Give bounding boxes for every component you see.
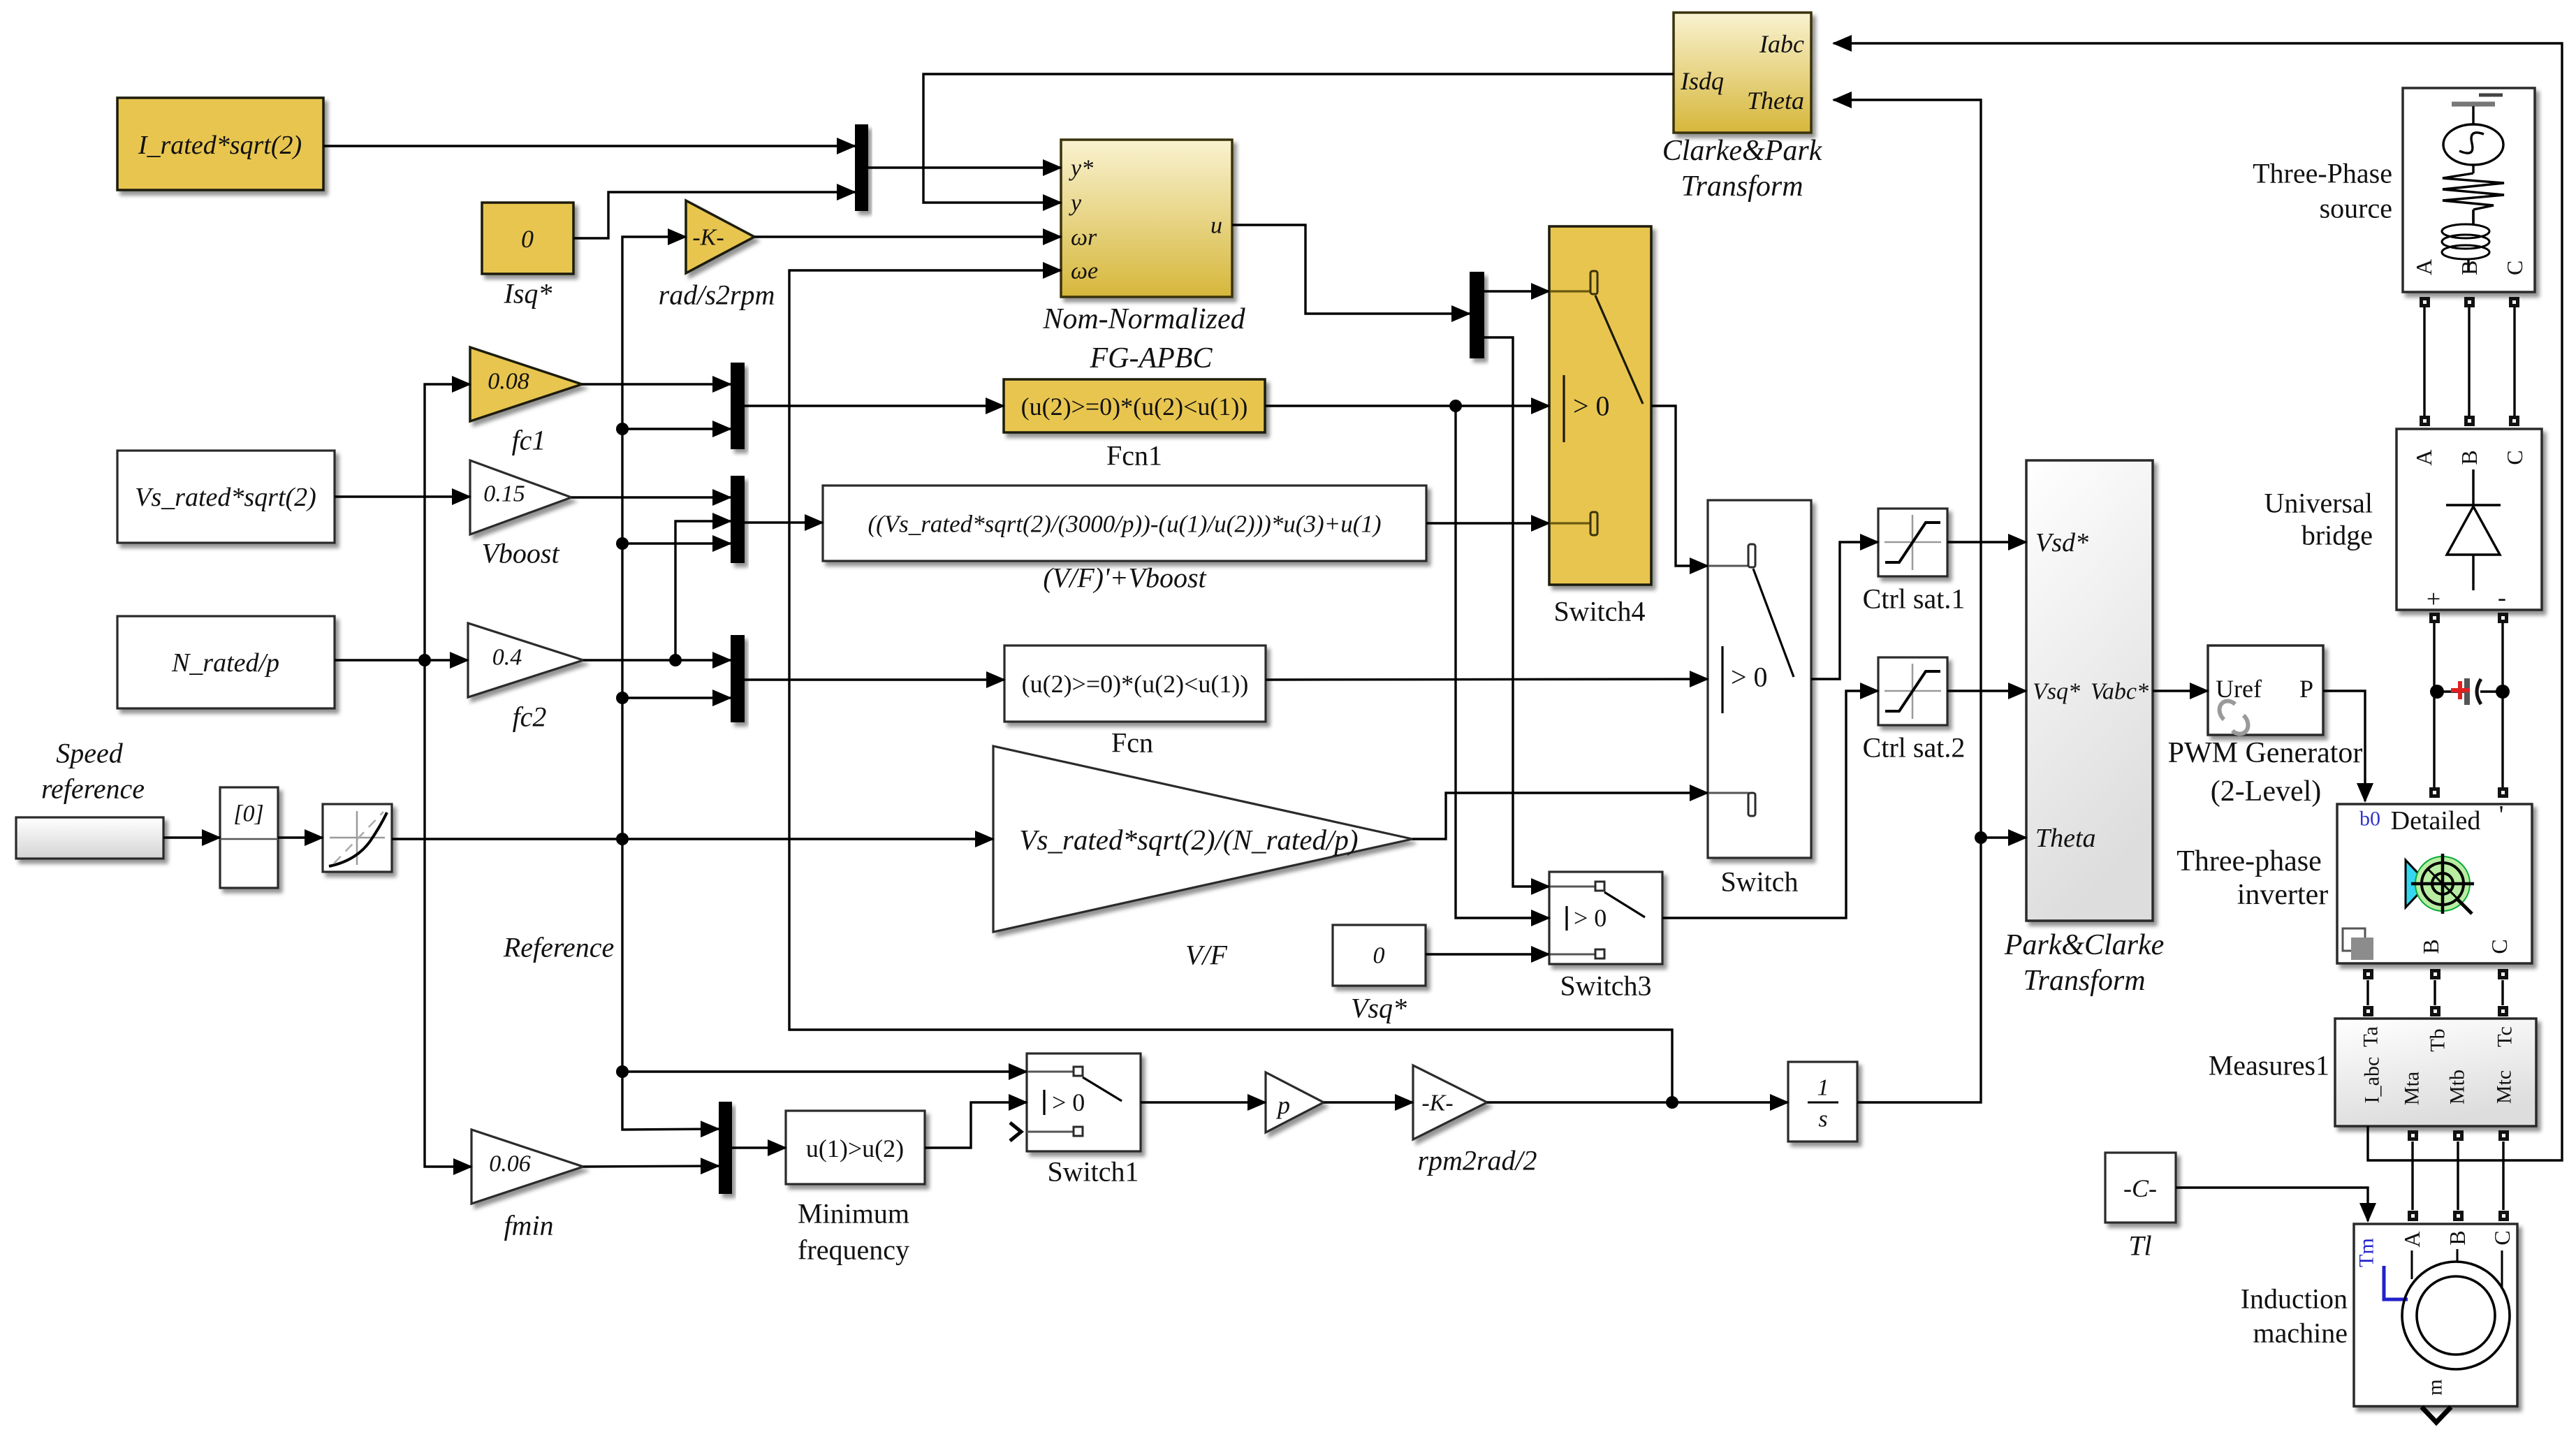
wire source B to bridge B [2468, 307, 2470, 416]
wire fc1 to MuxB in1 [582, 383, 731, 385]
svg-text:Ta: Ta [2359, 1026, 2383, 1047]
wire Reference branch to MuxB in2 [622, 428, 731, 430]
svg-text:-: - [2498, 583, 2506, 611]
saturation Ctrl sat.1 [1878, 509, 1947, 576]
gain rpm2rad/2 -K- [1413, 1065, 1487, 1139]
machine stator/rotor circles [2402, 1262, 2510, 1369]
svg-text:ωe: ωe [1071, 258, 1098, 284]
constant block Vs_rated*sqrt(2) [117, 451, 335, 543]
svg-text:Tl: Tl [2128, 1230, 2151, 1262]
wire MuxE to Minimum frequency [732, 1146, 786, 1148]
svg-text:Switch3: Switch3 [1560, 970, 1651, 1002]
wire Switch to Ctrl sat.1 [1811, 542, 1878, 679]
block Three-Phase source [2403, 88, 2535, 292]
svg-text:Ctrl sat.2: Ctrl sat.2 [1863, 732, 1966, 764]
wire Fcn to Switch in2 [1266, 679, 1708, 680]
block Reference saturation/rate limiter [323, 804, 392, 872]
svg-text:B: B [2445, 1230, 2470, 1245]
svg-text:B: B [2457, 261, 2482, 275]
svg-text:V/F: V/F [1185, 940, 1228, 971]
wire we feedback (from rpm2rad/2 line) [789, 270, 1672, 1102]
svg-text:Tc: Tc [2494, 1026, 2517, 1047]
svg-text:Fcn: Fcn [1111, 727, 1153, 759]
mux MuxB (Fcn1 inputs) [731, 363, 745, 449]
svg-text:Ctrl sat.1: Ctrl sat.1 [1863, 583, 1966, 615]
svg-text:Vsd*: Vsd* [2035, 528, 2088, 557]
wire PWM P down to inverter [2323, 691, 2365, 801]
svg-text:-C-: -C- [2123, 1174, 2157, 1202]
block PWM Generator (2-Level) [2208, 646, 2323, 735]
Switch3 block [1549, 872, 1662, 964]
junction node Reference/Switch1 [616, 1065, 629, 1078]
inductor coils inside source [2442, 224, 2489, 238]
gain fmin 0.06 [471, 1130, 583, 1204]
port pads machine inputs [2408, 1211, 2509, 1221]
svg-text:Universal: Universal [2264, 488, 2373, 519]
Fcn block [1004, 646, 1266, 722]
gain fc1 0.08 [470, 347, 582, 421]
wire Vsq* 0 to Switch3 in3 [1426, 953, 1549, 955]
svg-text:(2-Level): (2-Level) [2211, 775, 2322, 808]
svg-text:0.06: 0.06 [489, 1151, 531, 1177]
junction node DC bus - [2496, 685, 2510, 699]
svg-text:-K-: -K- [692, 225, 724, 251]
svg-text:P: P [2299, 675, 2313, 703]
svg-text:A: A [2399, 1231, 2424, 1247]
blue Tm arrow polyline [2384, 1266, 2408, 1299]
svg-text:inverter: inverter [2237, 879, 2329, 911]
svg-text:[0]: [0] [233, 801, 263, 827]
svg-text:Vboost: Vboost [481, 538, 559, 569]
m output chevron [2422, 1407, 2451, 1422]
wire Reference to rad/s2rpm [622, 237, 686, 839]
resistor zigzag inside source [2443, 173, 2504, 210]
svg-text:ωr: ωr [1071, 225, 1097, 251]
svg-text:((Vs_rated*sqrt(2)/(3000/p))-(: ((Vs_rated*sqrt(2)/(3000/p))-(u(1)/u(2))… [868, 511, 1381, 538]
Fcn block u(1)>u(2) Minimum frequency [786, 1111, 925, 1184]
svg-text:Isdq: Isdq [1680, 67, 1724, 95]
svg-text:Three-Phase: Three-Phase [2253, 158, 2392, 189]
junction node DC bus + [2430, 685, 2444, 699]
svg-text:': ' [2499, 801, 2504, 830]
wire fmin to MuxE in2 [583, 1166, 719, 1167]
Switch block [1708, 500, 1811, 858]
wire Theta branch to Park&Clarke Theta [1981, 836, 2026, 838]
gain V/F big triangle [993, 746, 1412, 932]
svg-text:Induction: Induction [2241, 1283, 2348, 1315]
svg-text:Mtb: Mtb [2446, 1070, 2469, 1104]
wire bridge - to inverter [2501, 622, 2503, 787]
block Induction machine [2354, 1224, 2517, 1406]
subsystem Measures1 [2335, 1019, 2536, 1126]
junction node rpm2rad output [1666, 1096, 1678, 1109]
wire I_abc measurement loop to Clarke&Park Iabc [1834, 43, 2562, 1160]
wire demux out1 to Switch4 in1 [1484, 290, 1549, 292]
Switch4 block [1549, 226, 1651, 585]
svg-text:Transform: Transform [1681, 170, 1803, 203]
wire Measures Mtc to machine C [2502, 1142, 2504, 1210]
mux MuxE (Minimum frequency inputs) [719, 1102, 732, 1194]
wire Vabc* to PWM Uref [2153, 690, 2208, 692]
gain fc2 0.4 [468, 623, 583, 697]
port pads Measures inputs [2363, 1006, 2508, 1016]
svg-text:Isq*: Isq* [504, 278, 552, 309]
gain p [1266, 1072, 1324, 1132]
svg-text:Nom-Normalized: Nom-Normalized [1042, 303, 1245, 335]
source block Speed reference ramp [16, 817, 163, 859]
integrator block 1/s [1788, 1062, 1857, 1142]
svg-text:frequency: frequency [798, 1234, 909, 1266]
svg-text:reference: reference [41, 773, 145, 805]
constant block N_rated/p [117, 616, 335, 708]
wire inverter B to Measures Tb [2434, 980, 2436, 1005]
block Three-phase inverter Detailed [2337, 804, 2532, 963]
port pads inverter outputs [2363, 969, 2508, 979]
diode symbol inside bridge [2472, 469, 2474, 505]
svg-text:C: C [2489, 1230, 2515, 1245]
wire Speed reference to [0] [163, 836, 220, 838]
svg-text:y: y [1069, 191, 1082, 217]
demux before Switch4 [1470, 272, 1484, 358]
svg-text:0: 0 [1373, 943, 1385, 969]
gray squares icon inside inverter [2343, 928, 2365, 951]
wire MuxD to Fcn [745, 678, 1004, 680]
svg-text:s: s [1818, 1107, 1827, 1132]
port pads Measures outputs [2408, 1130, 2509, 1141]
svg-text:Vsq*: Vsq* [1351, 993, 1407, 1024]
svg-text:Three-phase: Three-phase [2176, 845, 2322, 877]
svg-text:Mta: Mta [2401, 1072, 2424, 1105]
wire Ctrl sat.1 to Vsd* [1947, 541, 2026, 543]
wire Reference down branch to MuxE in1 [622, 839, 719, 1130]
svg-text:(u(2)>=0)*(u(2)<u(1)): (u(2)>=0)*(u(2)<u(1)) [1021, 393, 1248, 421]
svg-text:bridge: bridge [2301, 520, 2373, 551]
svg-text:Fcn1: Fcn1 [1106, 440, 1162, 472]
constant block Tl -C- [2105, 1153, 2176, 1223]
svg-text:Tb: Tb [2427, 1028, 2450, 1051]
wire Fcn1 branch to Switch3 in2 [1456, 406, 1549, 918]
junction node Theta/ParkClarke [1975, 831, 1987, 844]
svg-text:p: p [1275, 1091, 1290, 1119]
wire inverter C to Measures Tc [2501, 980, 2503, 1005]
wire fc2 branch to MuxC in2 [675, 521, 731, 660]
wire rpm2rad/2 to integrator [1487, 1101, 1788, 1103]
svg-text:Switch: Switch [1720, 866, 1798, 898]
svg-text:B: B [2418, 939, 2443, 954]
svg-text:Theta: Theta [1747, 87, 1804, 115]
svg-text:+: + [2427, 585, 2440, 613]
svg-text:> 0: > 0 [1731, 662, 1768, 693]
Switch1 block [1027, 1053, 1141, 1151]
svg-text:machine: machine [2253, 1318, 2348, 1349]
block Universal bridge [2396, 429, 2542, 610]
svg-text:Iabc: Iabc [1759, 30, 1804, 58]
junction node Reference/MuxB [616, 423, 629, 435]
svg-text:0.08: 0.08 [488, 369, 529, 395]
wire Switch1 to gain p [1141, 1101, 1266, 1103]
svg-text:u: u [1210, 213, 1222, 239]
svg-text:rad/s2rpm: rad/s2rpm [659, 279, 775, 311]
block [0] index vector [220, 787, 278, 888]
port pads source outputs [2420, 297, 2519, 307]
wire Switch3 to Ctrl sat.2 [1662, 691, 1878, 918]
wire Measures Mta to machine A [2411, 1142, 2413, 1210]
motor icon inside inverter [2406, 860, 2428, 907]
svg-text:Park&Clarke: Park&Clarke [2004, 929, 2165, 961]
wire fc2 to MuxD in1 [583, 659, 731, 661]
junction node Reference/MuxD [616, 692, 629, 704]
port pads inverter DC inputs [2429, 787, 2508, 798]
svg-text:I_abc: I_abc [2361, 1057, 2384, 1104]
Fcn block (V/F)'+Vboost [823, 486, 1426, 561]
gain Vboost 0.15 [470, 460, 571, 534]
wire MuxB to Fcn1 [745, 404, 1004, 407]
gain rad/s2rpm -K- [686, 200, 754, 273]
AC source circle inside source [2443, 124, 2503, 165]
svg-text:Switch1: Switch1 [1047, 1156, 1139, 1188]
svg-text:N_rated/p: N_rated/p [171, 648, 279, 678]
junction node Fcn1/Switch3 [1449, 400, 1462, 412]
svg-text:A: A [2411, 449, 2436, 465]
Fcn1 block [1004, 379, 1265, 432]
wire Reference main to V/F [392, 838, 993, 840]
svg-text:Vs_rated*sqrt(2)/(N_rated/p): Vs_rated*sqrt(2)/(N_rated/p) [1019, 824, 1358, 856]
svg-text:I_rated*sqrt(2): I_rated*sqrt(2) [138, 131, 302, 160]
junction node Reference/MuxC [616, 537, 629, 550]
wire Measures Mtb to machine B [2457, 1142, 2459, 1210]
wire V/F to Switch in3 [1412, 793, 1708, 839]
junction node Reference main [616, 833, 629, 845]
junction node fc2 branch [669, 654, 682, 666]
svg-text:y*: y* [1069, 156, 1093, 182]
wire [0] to rate limiter [278, 836, 323, 838]
wire inverter A to Measures Ta [2366, 980, 2369, 1005]
DC bus capacitor branch [2437, 690, 2466, 692]
svg-text:fmin: fmin [504, 1210, 553, 1241]
svg-text:fc2: fc2 [513, 701, 547, 733]
svg-text:Theta: Theta [2035, 824, 2096, 853]
subsystem Clarke&Park Transform [1674, 13, 1811, 133]
wire Reference branch to MuxD in2 [622, 697, 731, 699]
wire MuxC to (V/F)'+Vboost [745, 521, 823, 523]
svg-text:FG-APBC: FG-APBC [1090, 342, 1213, 374]
wire Ctrl sat.2 to Vsq* [1947, 690, 2026, 692]
constant block Isq* value 0 [482, 203, 573, 274]
wire N_rated to fc2 [335, 659, 468, 661]
wire Vs_rated to Vboost [335, 495, 470, 497]
port pads bridge inputs [2420, 416, 2519, 426]
svg-text:Switch4: Switch4 [1553, 596, 1645, 627]
svg-text:1: 1 [1817, 1075, 1829, 1101]
wire Fcn1 to Switch4 in2 [1265, 404, 1549, 407]
wire source C to bridge C [2513, 307, 2515, 416]
wire p to rpm2rad/2 [1324, 1101, 1413, 1103]
svg-text:Measures1: Measures1 [2209, 1050, 2329, 1081]
svg-text:C: C [2487, 939, 2512, 954]
junction node N_rated branch [418, 654, 431, 666]
wire N_rated branch vertical to fc1 and fmin [425, 384, 470, 660]
svg-text:Tm: Tm [2355, 1238, 2378, 1267]
mux MuxA (y* inputs) [855, 124, 868, 211]
svg-text:(u(2)>=0)*(u(2)<u(1)): (u(2)>=0)*(u(2)<u(1)) [1022, 670, 1249, 698]
svg-text:Clarke&Park: Clarke&Park [1662, 135, 1823, 167]
svg-text:Vs_rated*sqrt(2): Vs_rated*sqrt(2) [135, 483, 316, 512]
ground symbol inside source [2452, 102, 2495, 107]
wire (V/F)'+Vboost to Switch4 in3 [1426, 522, 1549, 524]
svg-text:0.15: 0.15 [483, 481, 525, 507]
svg-text:fc1: fc1 [512, 425, 546, 456]
svg-text:b0: b0 [2359, 808, 2380, 831]
wire Isq* 0 to MuxA in2 [573, 192, 855, 238]
constant block Vsq* value 0 [1333, 925, 1426, 986]
wire Tl to machine Tm [2176, 1188, 2368, 1221]
wire MuxA to y* [868, 166, 1061, 168]
svg-text:(V/F)'+Vboost: (V/F)'+Vboost [1043, 562, 1206, 594]
port pads bridge outputs [2429, 613, 2508, 623]
wire bridge + to inverter [2433, 622, 2435, 787]
svg-text:A: A [2411, 259, 2436, 275]
svg-text:Speed: Speed [56, 738, 124, 769]
svg-text:C: C [2502, 450, 2527, 465]
wire Clarke&Park Isdq to y [923, 74, 1674, 203]
mux MuxC ((V/F)'+Vboost inputs) [731, 476, 745, 563]
saturation Ctrl sat.2 [1878, 657, 1947, 725]
svg-text:> 0: > 0 [1573, 391, 1610, 422]
svg-text:Uref: Uref [2216, 675, 2262, 703]
svg-text:u(1)>u(2): u(1)>u(2) [806, 1135, 904, 1162]
wire integrator Theta main up to Clarke&Park Theta [1834, 100, 1981, 1102]
wire Vboost to MuxC in1 [571, 496, 731, 498]
svg-text:Minimum: Minimum [798, 1198, 909, 1230]
svg-text:> 0: > 0 [1574, 904, 1607, 932]
unconnected port marker Switch1 in3 [1010, 1123, 1021, 1141]
svg-text:Mtc: Mtc [2493, 1070, 2516, 1104]
svg-text:-K-: -K- [1421, 1091, 1453, 1116]
svg-text:Vabc*: Vabc* [2091, 679, 2149, 705]
subsystem Park&Clarke Transform [2026, 460, 2153, 921]
constant block I_rated*sqrt(2) [117, 98, 323, 190]
wire demux out2 to Switch3 in1 [1484, 337, 1549, 887]
wire rad/s2rpm to wr [754, 235, 1061, 238]
svg-text:B: B [2457, 450, 2482, 465]
mux MuxD (Fcn inputs) [731, 635, 745, 722]
svg-text:> 0: > 0 [1052, 1088, 1085, 1116]
svg-text:Vsq*: Vsq* [2033, 679, 2080, 705]
svg-text:Transform: Transform [2023, 965, 2145, 997]
wire source A to bridge A [2423, 307, 2425, 416]
wire I_rated to MuxA in1 [323, 145, 855, 147]
svg-text:0.4: 0.4 [492, 645, 522, 671]
svg-text:Detailed: Detailed [2391, 806, 2481, 836]
wire Reference branch to MuxC in3 [622, 542, 731, 544]
wire Reference branch to Switch1 in1 [622, 1070, 1027, 1072]
svg-text:0: 0 [521, 225, 534, 253]
svg-text:C: C [2502, 261, 2527, 275]
wire Switch4 to Switch in1 [1651, 406, 1708, 566]
svg-text:Reference: Reference [503, 932, 614, 963]
svg-text:rpm2rad/2: rpm2rad/2 [1417, 1145, 1537, 1176]
svg-text:PWM Generator: PWM Generator [2168, 737, 2363, 769]
svg-text:source: source [2320, 193, 2392, 224]
subsystem Nom-Normalized FG-APBC [1061, 140, 1232, 297]
wire Minimum frequency to Switch1 in2 [925, 1102, 1027, 1148]
wire u to demux [1232, 225, 1470, 314]
svg-text:m: m [2424, 1379, 2447, 1395]
